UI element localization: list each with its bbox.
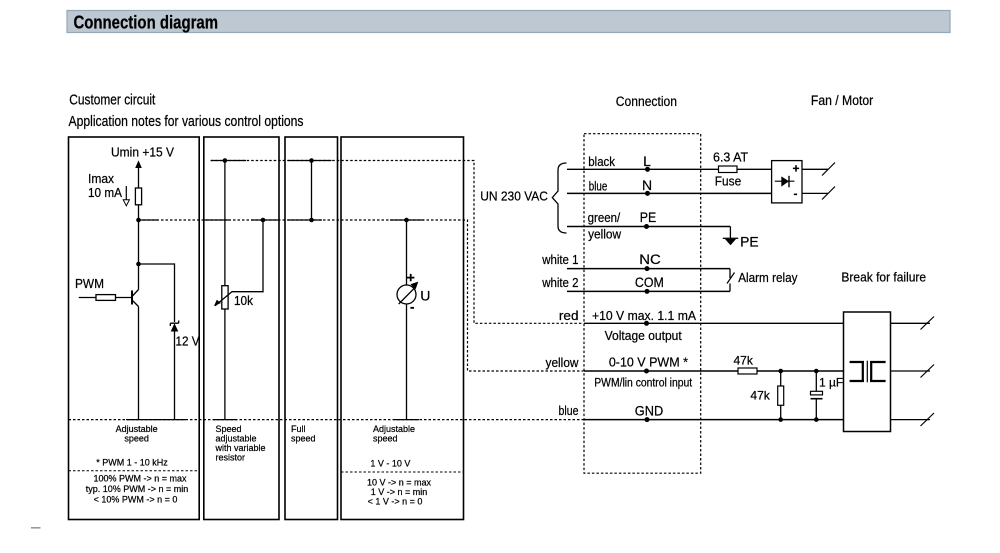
junction dot 47k top: [778, 369, 783, 374]
svg-text:10 V -> n = max: 10 V -> n = max: [367, 478, 432, 488]
svg-text:N: N: [642, 177, 652, 193]
box1 customer option PWM: [69, 137, 200, 520]
wire to voltmeter: [406, 220, 408, 285]
svg-text:GND: GND: [635, 402, 664, 418]
svg-text:10 mA: 10 mA: [88, 185, 122, 200]
resistor R4 47k vertical: [778, 371, 784, 420]
svg-text:Fan / Motor: Fan / Motor: [811, 93, 874, 108]
svg-text:* PWM 1 - 10 kHz: * PWM 1 - 10 kHz: [96, 458, 168, 468]
capacitor C1 1uF: [811, 371, 823, 420]
svg-text:L: L: [643, 153, 651, 169]
svg-text:red: red: [559, 308, 579, 323]
svg-text:speed: speed: [291, 434, 316, 444]
wiper junction dot: [261, 218, 266, 223]
svg-text:COM: COM: [635, 274, 664, 290]
transistor Q1: [132, 290, 139, 307]
svg-text:10k: 10k: [234, 294, 254, 308]
GND rail solid overlays: [126, 419, 419, 421]
box4 analog option: [341, 137, 464, 520]
wire fan output plus: [802, 168, 828, 170]
arrow down Imax: [123, 186, 129, 206]
break mark motor 1: [921, 317, 935, 330]
svg-text:Adjustable: Adjustable: [116, 424, 158, 434]
wire rail to pot: [224, 161, 226, 286]
svg-text:Connection diagram: Connection diagram: [74, 11, 219, 32]
svg-text:< 10% PWM -> n = 0: < 10% PWM -> n = 0: [94, 495, 178, 505]
wire red +10V: [584, 322, 844, 324]
svg-text:-: -: [794, 187, 798, 201]
break mark fan minus: [822, 187, 835, 200]
junction dot cap top: [814, 369, 819, 374]
svg-text:white 2: white 2: [541, 275, 578, 290]
wire PE: [567, 226, 730, 228]
box4 junction dot: [404, 218, 409, 223]
diode box fan: [772, 161, 802, 203]
junction dot 47k bottom: [778, 417, 783, 422]
wire junction to zener: [139, 264, 175, 322]
wire pot down: [224, 309, 226, 420]
dot NC: [645, 266, 650, 271]
svg-text:+: +: [793, 162, 800, 176]
svg-text:Umin +15 V: Umin +15 V: [111, 145, 174, 160]
fuse F1: [719, 166, 738, 173]
wire resistor to node: [138, 205, 140, 220]
GND dashed rail: [69, 419, 584, 421]
svg-text:47k: 47k: [750, 389, 770, 403]
svg-text:speed: speed: [124, 434, 149, 444]
resistor base: [96, 295, 116, 301]
PE earth symbol: [723, 227, 738, 246]
dot GND: [645, 417, 650, 422]
control line solid overlays: [139, 219, 425, 221]
junction dot box1: [136, 262, 141, 267]
dot COM: [645, 289, 650, 294]
wire fan output minus: [802, 192, 828, 194]
dot N: [645, 191, 650, 196]
svg-text:PWM: PWM: [75, 276, 104, 291]
node dot box1: [136, 218, 141, 223]
wire motor output 3: [891, 419, 931, 421]
svg-text:yellow: yellow: [546, 355, 580, 370]
wire voltmeter down: [406, 304, 408, 420]
svg-text:white 1: white 1: [541, 252, 578, 267]
diode D2: [775, 176, 795, 188]
svg-text:6.3 AT: 6.3 AT: [713, 150, 748, 165]
+15V rail solid overlays: [211, 160, 332, 162]
svg-text:UN 230 VAC: UN 230 VAC: [480, 189, 548, 204]
wire resistor to base: [116, 297, 133, 299]
wire N: [567, 192, 772, 194]
box1 note separator: [69, 470, 200, 472]
svg-text:Connection: Connection: [616, 94, 677, 109]
svg-text:1 V - 10 V: 1 V - 10 V: [370, 459, 410, 469]
box3 link wire: [311, 161, 313, 221]
header bar: [67, 11, 950, 33]
wire yellow PWM: [584, 370, 844, 372]
wire PWM input: [79, 297, 96, 299]
svg-text:< 1 V -> n = 0: < 1 V -> n = 0: [368, 497, 423, 507]
wiper wire: [232, 220, 263, 292]
junction dot cap bottom: [814, 417, 819, 422]
box3 full speed: [285, 137, 338, 520]
svg-text:PE: PE: [740, 235, 759, 250]
svg-text:+10 V max. 1.1 mA: +10 V max. 1.1 mA: [592, 308, 696, 323]
wire emitter down: [138, 307, 140, 420]
svg-text:100% PWM -> n = max: 100% PWM -> n = max: [93, 474, 187, 484]
svg-text:0-10 V PWM *: 0-10 V PWM *: [609, 355, 688, 370]
svg-text:adjustable: adjustable: [216, 434, 257, 444]
wire node down: [138, 220, 140, 264]
+15V rail dashed: [211, 161, 584, 324]
zener diode D1 12V: [170, 321, 178, 332]
connection dashed box: [584, 134, 701, 474]
control line dashed: [139, 220, 584, 371]
resistor R internal: [135, 188, 141, 205]
svg-text:Voltage output: Voltage output: [605, 328, 682, 343]
box2 customer option resistor: [204, 137, 279, 520]
wire zener down: [174, 332, 176, 420]
arrow up Umin: [135, 160, 142, 188]
svg-text:blue: blue: [589, 179, 608, 194]
svg-text:resistor: resistor: [216, 453, 246, 463]
box4 note separator: [341, 471, 464, 473]
wire motor output 1: [891, 322, 931, 324]
svg-text:U: U: [420, 288, 430, 304]
break mark motor 3: [921, 413, 935, 426]
svg-text:typ. 10% PWM -> n = min: typ. 10% PWM -> n = min: [86, 484, 189, 494]
dot red: [644, 321, 649, 326]
dot L: [645, 167, 650, 172]
svg-text:1 V -> n = min: 1 V -> n = min: [371, 487, 428, 497]
break for failure box: [844, 312, 891, 432]
svg-text:NC: NC: [639, 251, 661, 267]
svg-text:Application notes for various: Application notes for various control op…: [69, 114, 304, 130]
wire COM: [567, 290, 730, 292]
svg-text:Imax: Imax: [88, 171, 114, 186]
wire motor output 2: [891, 370, 931, 372]
svg-text:yellow: yellow: [588, 226, 622, 241]
svg-text:47k: 47k: [734, 354, 754, 368]
svg-text:black: black: [588, 154, 615, 169]
svg-text:PWM/lin control input: PWM/lin control input: [594, 377, 693, 389]
svg-text:Customer circuit: Customer circuit: [69, 93, 155, 109]
svg-text:Speed: Speed: [216, 424, 242, 434]
resistor 47k horizontal: [738, 368, 757, 374]
box3 control dot: [309, 218, 314, 223]
wire L: [567, 168, 772, 170]
svg-text:PE: PE: [640, 209, 657, 225]
svg-text:Full: Full: [291, 424, 306, 434]
connector icon: [850, 362, 864, 381]
label plus: [407, 274, 414, 281]
rail junction dot box2: [223, 158, 228, 163]
wire NC: [567, 268, 730, 270]
dot yellow: [644, 369, 649, 374]
break mark fan plus: [822, 163, 835, 176]
svg-text:Break for failure: Break for failure: [841, 270, 926, 285]
label minus: [410, 307, 414, 309]
wire junction to collector: [138, 264, 140, 290]
box3 rail dot: [309, 158, 314, 163]
voltmeter U source: [397, 282, 418, 304]
svg-text:1 µF: 1 µF: [819, 376, 843, 390]
svg-text:Adjustable: Adjustable: [373, 424, 415, 434]
potentiometer R2 10k: [214, 286, 233, 309]
svg-text:green/: green/: [588, 210, 621, 225]
dot PE: [644, 224, 649, 229]
svg-text:Fuse: Fuse: [715, 174, 741, 189]
alarm relay contact switch: [727, 269, 735, 292]
page artifact dash: [31, 527, 41, 529]
svg-text:blue: blue: [559, 403, 579, 418]
svg-text:12 V: 12 V: [176, 334, 200, 349]
svg-text:speed: speed: [373, 434, 398, 444]
svg-text:Alarm relay: Alarm relay: [738, 270, 798, 285]
brace UN: [552, 163, 566, 233]
svg-text:with variable: with variable: [215, 443, 266, 453]
wire blue GND solid: [584, 419, 844, 421]
break mark motor 2: [921, 365, 935, 378]
